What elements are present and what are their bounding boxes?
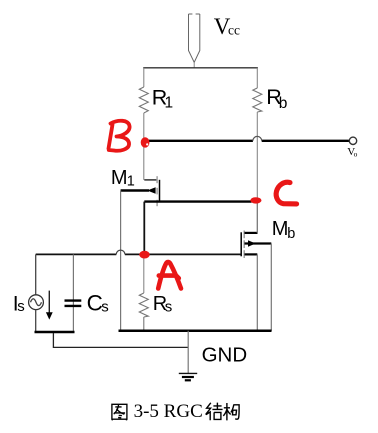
Is current direction arrow bbox=[46, 291, 53, 320]
wire: Mb source to ground rail bbox=[256, 254, 258, 331]
wire: top supply rail bbox=[143, 67, 258, 69]
annotation letter C (red) bbox=[276, 182, 296, 204]
wire: node B to output (thick) bbox=[144, 140, 350, 142]
Rb value label bbox=[266, 85, 287, 112]
svg-text:b: b bbox=[287, 226, 295, 242]
resistor R1 bbox=[139, 68, 148, 180]
Cs value label bbox=[87, 291, 109, 316]
Rs value label bbox=[153, 293, 173, 316]
svg-text:1: 1 bbox=[127, 173, 135, 189]
annotation letter B (red) bbox=[109, 121, 130, 151]
wire: M1 source down to node A bbox=[143, 202, 145, 255]
caption: 图 3-5 RGC 结构 bbox=[112, 401, 239, 422]
svg-text:GND: GND bbox=[202, 344, 248, 367]
Vcc label bbox=[214, 14, 240, 39]
wire hop over Rb branch bbox=[253, 136, 262, 140]
M1 label bbox=[111, 167, 135, 190]
ground bbox=[179, 331, 197, 381]
svg-text:M: M bbox=[272, 218, 289, 240]
output terminal Vo bbox=[349, 137, 356, 144]
R1 value label bbox=[152, 86, 173, 112]
wire: Mb drain up to node C bbox=[256, 200, 258, 233]
wire: Mb bulk to ground rail bbox=[270, 244, 272, 331]
resistor Rs bbox=[139, 254, 148, 331]
wire: node A horizontal bbox=[36, 253, 241, 255]
node B red dot bbox=[141, 137, 150, 147]
svg-text:o: o bbox=[354, 149, 358, 158]
svg-text:3-5 RGC: 3-5 RGC bbox=[134, 401, 203, 422]
wire: loop to ground stem bbox=[53, 333, 188, 347]
svg-text:1: 1 bbox=[165, 94, 174, 111]
caption char 结 bbox=[206, 403, 223, 421]
Vo label bbox=[347, 146, 357, 158]
svg-text:s: s bbox=[101, 298, 109, 315]
current source Is bbox=[29, 254, 44, 332]
annotation letter A (red) bbox=[158, 262, 181, 288]
svg-text:s: s bbox=[165, 299, 173, 316]
Mb label bbox=[272, 218, 295, 242]
wire: bottom ground rail (thick) bbox=[119, 330, 272, 333]
transistor Mb bbox=[241, 231, 271, 259]
wire hop over M1 bulk wire bbox=[116, 250, 125, 254]
transistor M1 bbox=[121, 176, 252, 206]
svg-text:M: M bbox=[111, 167, 128, 189]
caption char 构 bbox=[223, 403, 239, 420]
power supply Vcc symbol bbox=[189, 14, 200, 68]
svg-text:cc: cc bbox=[228, 23, 240, 38]
svg-text:s: s bbox=[17, 298, 25, 315]
wire: bottom of Is/Cs loop bbox=[35, 331, 75, 333]
resistor Rb bbox=[253, 68, 262, 201]
caption char 图 bbox=[112, 404, 127, 420]
Is label bbox=[13, 293, 25, 316]
capacitor Cs bbox=[65, 254, 82, 332]
node C red dot bbox=[250, 197, 261, 203]
svg-text:b: b bbox=[279, 95, 288, 112]
node A red dot bbox=[139, 251, 150, 259]
wire: M1 bulk to ground rail bbox=[120, 191, 122, 331]
